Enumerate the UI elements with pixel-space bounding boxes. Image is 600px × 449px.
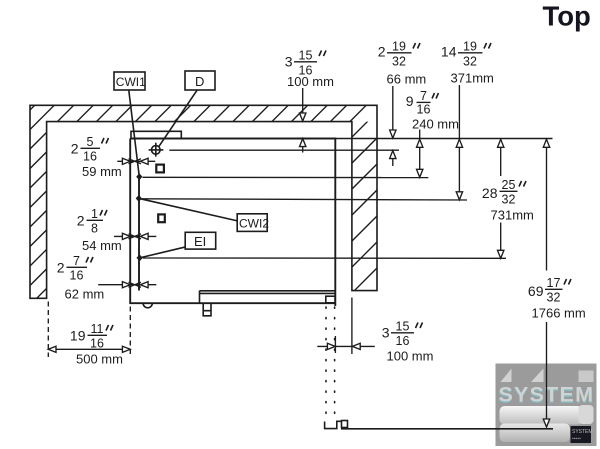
svg-text:371mm: 371mm (451, 71, 494, 86)
node CWI2 point (136, 195, 142, 202)
svg-text:7: 7 (73, 254, 80, 268)
dimension 62mm cluster (98, 282, 156, 288)
svg-text:19: 19 (463, 40, 477, 54)
svg-text:2: 2 (71, 141, 79, 157)
svg-text:17: 17 (547, 276, 561, 290)
text 19 11/16 500mm (70, 322, 123, 367)
svg-text:731mm: 731mm (491, 208, 534, 223)
svg-text:19: 19 (70, 328, 86, 344)
svg-text:240 mm: 240 mm (412, 116, 459, 131)
svg-text:▪▪▪▪▪: ▪▪▪▪▪ (572, 436, 581, 442)
text 69 17/32 1766mm (528, 276, 586, 321)
svg-text:5: 5 (87, 135, 94, 149)
svg-text:SYSTEM: SYSTEM (572, 429, 593, 435)
dimension 54mm cluster (114, 233, 156, 239)
svg-text:16: 16 (396, 334, 410, 348)
text 2 7/16 62mm (57, 254, 105, 302)
svg-text:69: 69 (528, 283, 544, 299)
svg-text:9: 9 (406, 93, 414, 109)
top 100mm dimension shaft (300, 88, 306, 153)
svg-text:100 mm: 100 mm (287, 74, 334, 89)
svg-text:15: 15 (299, 49, 313, 63)
svg-text:16: 16 (70, 269, 84, 283)
dotted outline below equipment right (326, 307, 335, 420)
pin square 1 (156, 165, 164, 173)
svg-text:2: 2 (57, 260, 65, 276)
371mm dimension (456, 85, 462, 200)
svg-text:2: 2 (378, 44, 386, 60)
rail right hook (326, 296, 335, 303)
svg-text:1766 mm: 1766 mm (532, 306, 586, 321)
wall hatching (0, 0, 600, 330)
text 2 1/8 54mm (77, 207, 122, 253)
svg-text:3: 3 (285, 54, 293, 70)
text 2 19/32 66mm (378, 40, 427, 87)
svg-text:2: 2 (77, 213, 85, 229)
svg-text:32: 32 (502, 193, 516, 207)
dimension 59mm cluster (117, 158, 155, 164)
watermark box (496, 364, 597, 447)
node EI point (137, 254, 143, 261)
svg-text:CWI2: CWI2 (239, 217, 269, 231)
equipment outline (130, 139, 335, 307)
equipment notch on top edge (131, 131, 181, 138)
svg-text:11: 11 (91, 322, 104, 336)
svg-text:32: 32 (463, 55, 477, 69)
drain symbol ⊕ (149, 143, 164, 157)
svg-text:D: D (195, 74, 204, 89)
1766mm dimension (543, 139, 549, 427)
line5 from EI node (143, 257, 506, 259)
svg-text:16: 16 (417, 102, 431, 116)
svg-text:1: 1 (91, 207, 98, 221)
66mm dimension (390, 86, 396, 166)
500mm dimension (48, 302, 130, 358)
svg-text:16: 16 (83, 150, 97, 164)
svg-text:54 mm: 54 mm (82, 238, 122, 253)
svg-text:100 mm: 100 mm (387, 349, 434, 364)
731mm dimension (498, 139, 504, 258)
line4 from CWI2 node (142, 199, 467, 200)
label EI (140, 232, 216, 258)
svg-text:32: 32 (547, 291, 561, 305)
svg-text:Top: Top (543, 1, 591, 32)
wall outline (30, 105, 377, 298)
text 28 25/32 731mm (482, 178, 534, 223)
left extension line through nodes (138, 177, 140, 291)
label D (159, 71, 215, 146)
bottom rail (200, 291, 336, 303)
240mm dimension (417, 130, 423, 178)
svg-text:8: 8 (91, 222, 98, 236)
bottom bracket (325, 421, 342, 428)
foot under bottom edge (203, 303, 211, 315)
svg-text:25: 25 (502, 178, 516, 192)
text 14 19/32 371mm (441, 40, 494, 86)
node CWI1 point (136, 173, 142, 180)
svg-text:15: 15 (396, 320, 410, 334)
svg-text:3: 3 (382, 325, 390, 341)
svg-text:62 mm: 62 mm (65, 287, 105, 302)
svg-text:32: 32 (392, 55, 406, 69)
label CWI1 (114, 72, 146, 177)
text 9 7/16 240mm (406, 89, 459, 131)
svg-text:59 mm: 59 mm (82, 164, 122, 179)
bottom 100mm dimension (317, 298, 375, 355)
svg-text:500 mm: 500 mm (76, 352, 123, 367)
svg-text:EI: EI (194, 234, 206, 249)
svg-text:7: 7 (420, 89, 427, 103)
svg-text:28: 28 (482, 185, 498, 201)
svg-text:CWI1: CWI1 (116, 75, 146, 89)
label CWI2 (140, 199, 269, 232)
line2 from drain (169, 149, 399, 151)
bottom datum line (341, 428, 553, 430)
text 2 5/16 59mm (71, 135, 122, 179)
pin square 2 (158, 214, 165, 222)
datum line1 (top edge extended right) (335, 138, 552, 140)
svg-text:14: 14 (441, 44, 457, 60)
caster bump on bottom edge (143, 303, 152, 308)
text 3 15/16 100mm bottom (382, 320, 434, 364)
line3 from CWI1 node (143, 176, 429, 178)
svg-text:19: 19 (392, 40, 406, 54)
text 3 15/16 100mm top (285, 49, 334, 90)
svg-text:66 mm: 66 mm (387, 72, 427, 87)
svg-text:16: 16 (90, 337, 104, 351)
